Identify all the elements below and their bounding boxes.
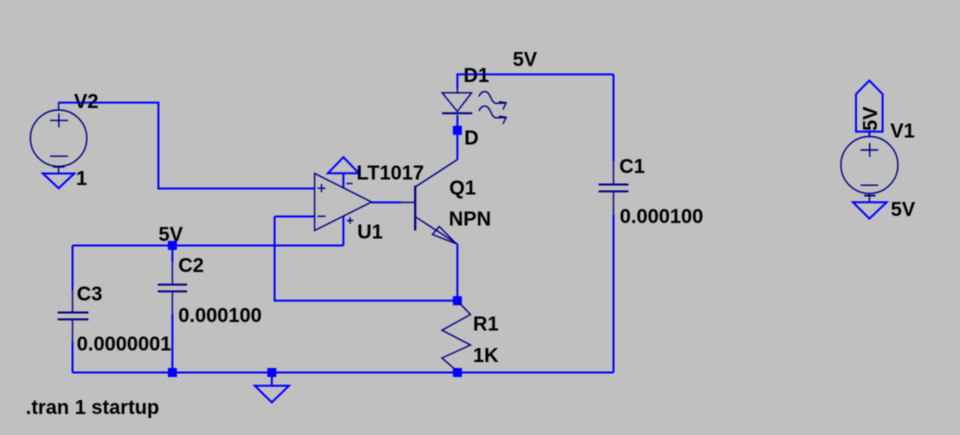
svg-text:0.0000001: 0.0000001 <box>77 333 172 355</box>
svg-text:D1: D1 <box>464 65 490 87</box>
svg-text:NPN: NPN <box>449 209 491 231</box>
svg-text:.tran 1 startup: .tran 1 startup <box>26 397 159 419</box>
svg-text:V1: V1 <box>890 120 914 142</box>
svg-text:C1: C1 <box>619 156 645 178</box>
svg-text:C3: C3 <box>77 284 103 306</box>
svg-text:Q1: Q1 <box>449 177 476 199</box>
svg-text:0.000100: 0.000100 <box>178 305 261 327</box>
svg-text:D: D <box>464 128 478 150</box>
svg-text:V2: V2 <box>74 91 98 113</box>
svg-text:1: 1 <box>76 168 87 190</box>
svg-text:0.000100: 0.000100 <box>620 206 703 228</box>
svg-text:5V: 5V <box>159 224 184 246</box>
svg-text:5V: 5V <box>860 106 882 131</box>
svg-text:LT1017: LT1017 <box>357 163 424 185</box>
svg-text:C2: C2 <box>178 255 204 277</box>
svg-text:5V: 5V <box>513 49 538 71</box>
svg-text:5V: 5V <box>891 199 916 221</box>
svg-text:U1: U1 <box>357 222 383 244</box>
svg-text:1K: 1K <box>473 345 499 367</box>
svg-text:R1: R1 <box>473 313 499 335</box>
